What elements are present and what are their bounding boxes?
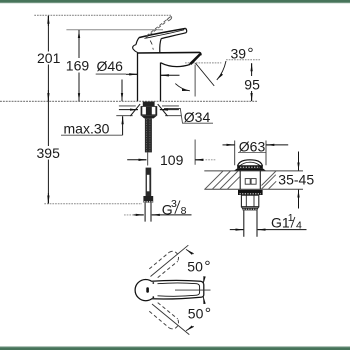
handle top view: lever inner line: [158, 283, 200, 296]
svg-text:Ø34: Ø34: [184, 109, 211, 125]
dimension 169: [78, 30, 80, 101]
dimension 109: [127, 159, 146, 161]
reference line: countertop surface: [0, 100, 257, 102]
ghost handle rotated down 50 degrees: [149, 303, 178, 329]
svg-text:95: 95: [244, 77, 260, 93]
39-degree spout axis line: [195, 63, 214, 86]
extension line at spout tip: [194, 65, 196, 165]
svg-text:Ø63: Ø63: [239, 138, 266, 154]
label Ø34 with leader: [164, 109, 213, 124]
50-degree arc arrows up: [202, 277, 205, 285]
handle top view: lever outline: [152, 280, 204, 299]
dimension G 3/8: [124, 214, 134, 216]
50-degree extension line up: [151, 245, 189, 276]
reference line: hose end level: [44, 203, 142, 205]
threaded shank upper segment: [145, 118, 152, 152]
reference line: handle top level: [66, 29, 163, 31]
dimension 35-45: [298, 152, 300, 171]
dimension 201: [47, 16, 49, 101]
ghost raised handle: [145, 18, 168, 38]
svg-text:8: 8: [181, 205, 187, 217]
faucet body column: [137, 53, 139, 101]
svg-text:169: 169: [66, 58, 90, 74]
centerline tick in gap: [147, 152, 149, 165]
handle top view: knob: [135, 280, 156, 301]
hose tube: [145, 203, 151, 222]
dimension 395: [47, 101, 49, 203]
dimension Ø63: [235, 141, 266, 166]
svg-text:°: °: [204, 259, 210, 276]
dimension G 1 1/4: [230, 229, 244, 231]
svg-text:109: 109: [160, 152, 184, 168]
spout underside: [161, 63, 191, 67]
handle lever (side view): [139, 28, 186, 37]
handle dome left edge and nub: [136, 38, 139, 45]
ghost handle rotated up 50 degrees: [149, 251, 178, 277]
reference line: under 39-degree label: [226, 59, 260, 61]
50-degree extension line down: [152, 304, 189, 335]
svg-text:39: 39: [231, 45, 247, 61]
svg-text:4: 4: [296, 220, 302, 232]
washer side lines left: [119, 105, 136, 107]
spray-angle arc arrow: [175, 84, 190, 91]
svg-text:35-45: 35-45: [278, 171, 314, 187]
svg-text:Ø46: Ø46: [97, 58, 124, 74]
top green border bar: [0, 0, 350, 2]
pop-up waste dome cap: [237, 160, 262, 166]
threaded shank lower segment: [146, 168, 152, 196]
39-degree arc arrow: [217, 61, 226, 80]
svg-text:3: 3: [171, 198, 177, 210]
shank nut: [143, 196, 153, 203]
spout top edge: [138, 52, 201, 55]
svg-text:50: 50: [187, 258, 203, 274]
aerator (black wedge at spout tip): [189, 53, 202, 65]
dimension 95: [251, 63, 253, 76]
reference line: spout tip level: [185, 62, 221, 64]
mounting nut and washer under counter: [143, 102, 155, 107]
svg-text:395: 395: [37, 145, 61, 161]
svg-text:201: 201: [37, 50, 61, 66]
handle centerline: [175, 289, 211, 291]
waste tailpipe: [244, 210, 257, 236]
50-degree arc arrows down: [202, 296, 205, 304]
bottom green border bar: [0, 347, 350, 350]
waste body through counter: [240, 171, 260, 189]
counter cross-section at waste: [204, 170, 303, 172]
waste hex nut: [241, 195, 258, 207]
svg-text:max.30: max.30: [64, 121, 110, 137]
washer side lines right: [162, 105, 179, 107]
svg-text:50: 50: [188, 305, 204, 321]
reference line: max height level: [34, 14, 171, 16]
svg-text:°: °: [205, 306, 211, 323]
knob mark: [146, 287, 149, 293]
waste locking ring: [238, 190, 263, 195]
svg-text:°: °: [247, 46, 253, 63]
dimension max.30: [121, 80, 123, 102]
